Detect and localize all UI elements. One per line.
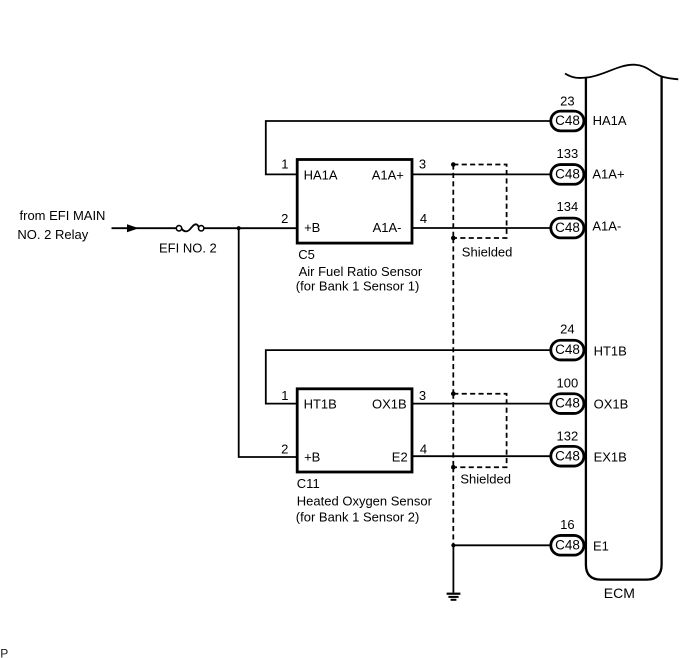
ECM outline [586,77,662,580]
label C5 Air Fuel Ratio Sensor [296,247,423,293]
svg-text:(for Bank 1 Sensor 2): (for Bank 1 Sensor 2) [296,509,420,524]
svg-text:4: 4 [420,442,427,457]
wire: C11 pin 1 HT1B loop to ECM HT1B [266,350,550,404]
ground [447,594,461,600]
sensor C11 box [297,389,412,472]
svg-text:134: 134 [557,199,579,214]
node: shield 1 top [451,162,456,167]
shield 1 (dashed) [453,165,506,239]
wire: C5 pin 3 A1A+ to ECM [411,173,550,175]
wire: shield drain dashed 1 [452,238,454,394]
connector C48 pin 100 [551,375,628,413]
label: from EFI MAIN NO. 2 Relay [17,208,105,242]
ECM breakline (wavy top) [565,65,678,80]
svg-text:+B: +B [304,220,320,235]
svg-text:A1A-: A1A- [373,220,402,235]
wire: C11 pin 3 OX1B to ECM [411,403,550,405]
svg-text:C48: C48 [555,342,580,357]
fuse EFI NO. 2 [159,224,217,255]
svg-text:C48: C48 [555,220,580,235]
svg-text:from EFI MAIN: from EFI MAIN [20,208,106,223]
node: ground junction [451,543,455,547]
svg-text:C5: C5 [298,247,315,262]
connector C48 pin 133 [551,146,625,184]
wire: fuse to C5 +B [204,227,298,229]
wire: to ECM E1 [453,544,549,546]
svg-text:1: 1 [281,157,288,172]
svg-text:OX1B: OX1B [372,396,407,411]
wire: feed from relay [112,227,177,229]
svg-text:E1: E1 [593,538,609,553]
connector C48 pin 134 [551,199,622,238]
svg-text:16: 16 [560,517,574,532]
svg-text:100: 100 [557,375,579,390]
svg-text:C48: C48 [555,448,580,463]
svg-text:Shielded: Shielded [460,471,511,486]
svg-text:ECM: ECM [604,585,635,601]
wire: C11 pin 4 E2 to ECM EX1B [411,455,550,457]
node: shield 2 bottom [451,465,456,470]
svg-text:3: 3 [419,388,426,403]
svg-text:23: 23 [560,93,574,108]
svg-text:HA1A: HA1A [593,113,627,128]
sensor C5 box [297,160,412,244]
svg-text:2: 2 [281,211,288,226]
wire: drop to ground [452,545,454,592]
svg-text:C48: C48 [555,396,580,411]
wire: branch down to C11 +B [239,228,298,457]
svg-text:HT1B: HT1B [304,396,337,411]
svg-text:C48: C48 [555,113,580,128]
svg-text:Heated Oxygen Sensor: Heated Oxygen Sensor [297,493,433,508]
svg-text:3: 3 [419,157,426,172]
wire: C5 pin 4 A1A- to ECM [411,227,550,229]
svg-text:NO. 2 Relay: NO. 2 Relay [17,227,88,242]
svg-text:+B: +B [304,449,320,464]
svg-text:EFI NO. 2: EFI NO. 2 [159,240,217,255]
shield 2 (dashed) [453,394,506,468]
connector C48 pin 24 [551,321,627,360]
svg-text:Air Fuel Ratio Sensor: Air Fuel Ratio Sensor [299,264,423,279]
wire: C5 pin 1 HA1A loop to ECM HA1A [266,121,550,174]
svg-text:C48: C48 [555,166,580,181]
svg-text:1: 1 [281,388,288,403]
svg-text:133: 133 [557,146,579,161]
svg-text:A1A+: A1A+ [372,167,404,182]
arrow: flow direction [127,224,139,232]
node: shield 1 bottom [451,236,456,241]
connector C48 pin 23 [551,93,627,130]
label C11 Heated Oxygen Sensor [296,476,433,524]
connector C48 pin 16 [551,517,609,555]
svg-text:A1A+: A1A+ [592,166,624,181]
svg-text:(for Bank 1 Sensor 1): (for Bank 1 Sensor 1) [296,278,420,293]
svg-text:4: 4 [420,211,427,226]
svg-text:OX1B: OX1B [594,397,629,412]
svg-text:C48: C48 [555,537,580,552]
svg-text:24: 24 [560,321,574,336]
node: +B branch junction [237,226,241,230]
svg-text:E2: E2 [392,449,408,464]
svg-text:HT1B: HT1B [594,344,627,359]
node: shield 2 top [451,391,456,396]
connector C48 pin 132 [551,428,627,466]
svg-text:HA1A: HA1A [304,167,338,182]
svg-text:C11: C11 [297,476,320,491]
wire: shield drain dashed 2 [452,467,454,545]
svg-text:2: 2 [281,442,288,457]
svg-text:Shielded: Shielded [462,245,513,260]
svg-text:P: P [0,646,8,658]
svg-text:132: 132 [557,428,579,443]
svg-text:A1A-: A1A- [592,219,621,234]
svg-text:EX1B: EX1B [594,449,627,464]
